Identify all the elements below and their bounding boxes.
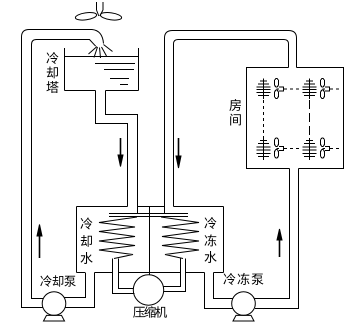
flow arrow up (cooling riser) [39,233,41,258]
label room [229,99,241,111]
room box [247,68,344,169]
evaporator coil (right zigzag) [161,217,199,259]
wire cooling-water riser inner [32,40,96,299]
compressor circle [133,275,163,305]
chilled pump base [233,315,254,321]
condenser coil (left zigzag) [99,217,137,259]
wire chiller bottom to chilled pump inlet [205,273,233,309]
dashed vertical right column [309,100,311,138]
cooling pump base [44,315,65,321]
label compressor [133,307,145,318]
coil header [109,207,188,217]
chilled pump circle [232,292,256,316]
dashed connections top row [284,88,341,90]
cooling tower basin [65,48,139,91]
water level lines [95,64,135,85]
label cooling water [80,217,92,229]
chiller box [77,207,224,273]
fan-coil unit coil [303,141,317,157]
fan-coil unit coil [257,81,271,96]
fan-coil unit fan [274,78,278,87]
fan-coil unit fan [320,138,324,147]
cooling tower fan blades [75,11,97,21]
wire chilled-water supply outer (chiller top to room top) [165,31,297,207]
flow arrow down (supply to chiller) [178,138,180,158]
fan-coil unit coil [257,141,271,157]
cooling pump circle [42,292,66,316]
label cooling tower [46,52,58,64]
label cooling pump [40,275,51,287]
fan-coil unit fan [320,78,324,87]
spray nozzle [89,45,113,59]
dashed vertical left column [263,100,265,138]
fan-coil unit coil [303,81,317,96]
wire evaporator coil to compressor [164,259,186,292]
fan-coil unit fan [274,138,278,147]
wire condenser coil to compressor [113,259,135,294]
dashed connections bottom row [284,148,341,150]
cooling tower fan stem [97,2,104,16]
flow arrow up (to room) [279,237,281,257]
wire chilled-water supply inner [174,40,289,207]
wire room return down to chilled pump [255,169,299,309]
chiller divider [149,207,151,276]
flow arrow down (tank to chiller) [120,138,122,157]
label chilled pump [223,273,235,285]
wire tank drain to chiller left [96,91,138,207]
label chilled water [204,217,216,229]
wire cooling pump outlet to chiller [65,273,95,308]
wire cooling-water riser outer (pump to tower spray) [22,30,104,308]
